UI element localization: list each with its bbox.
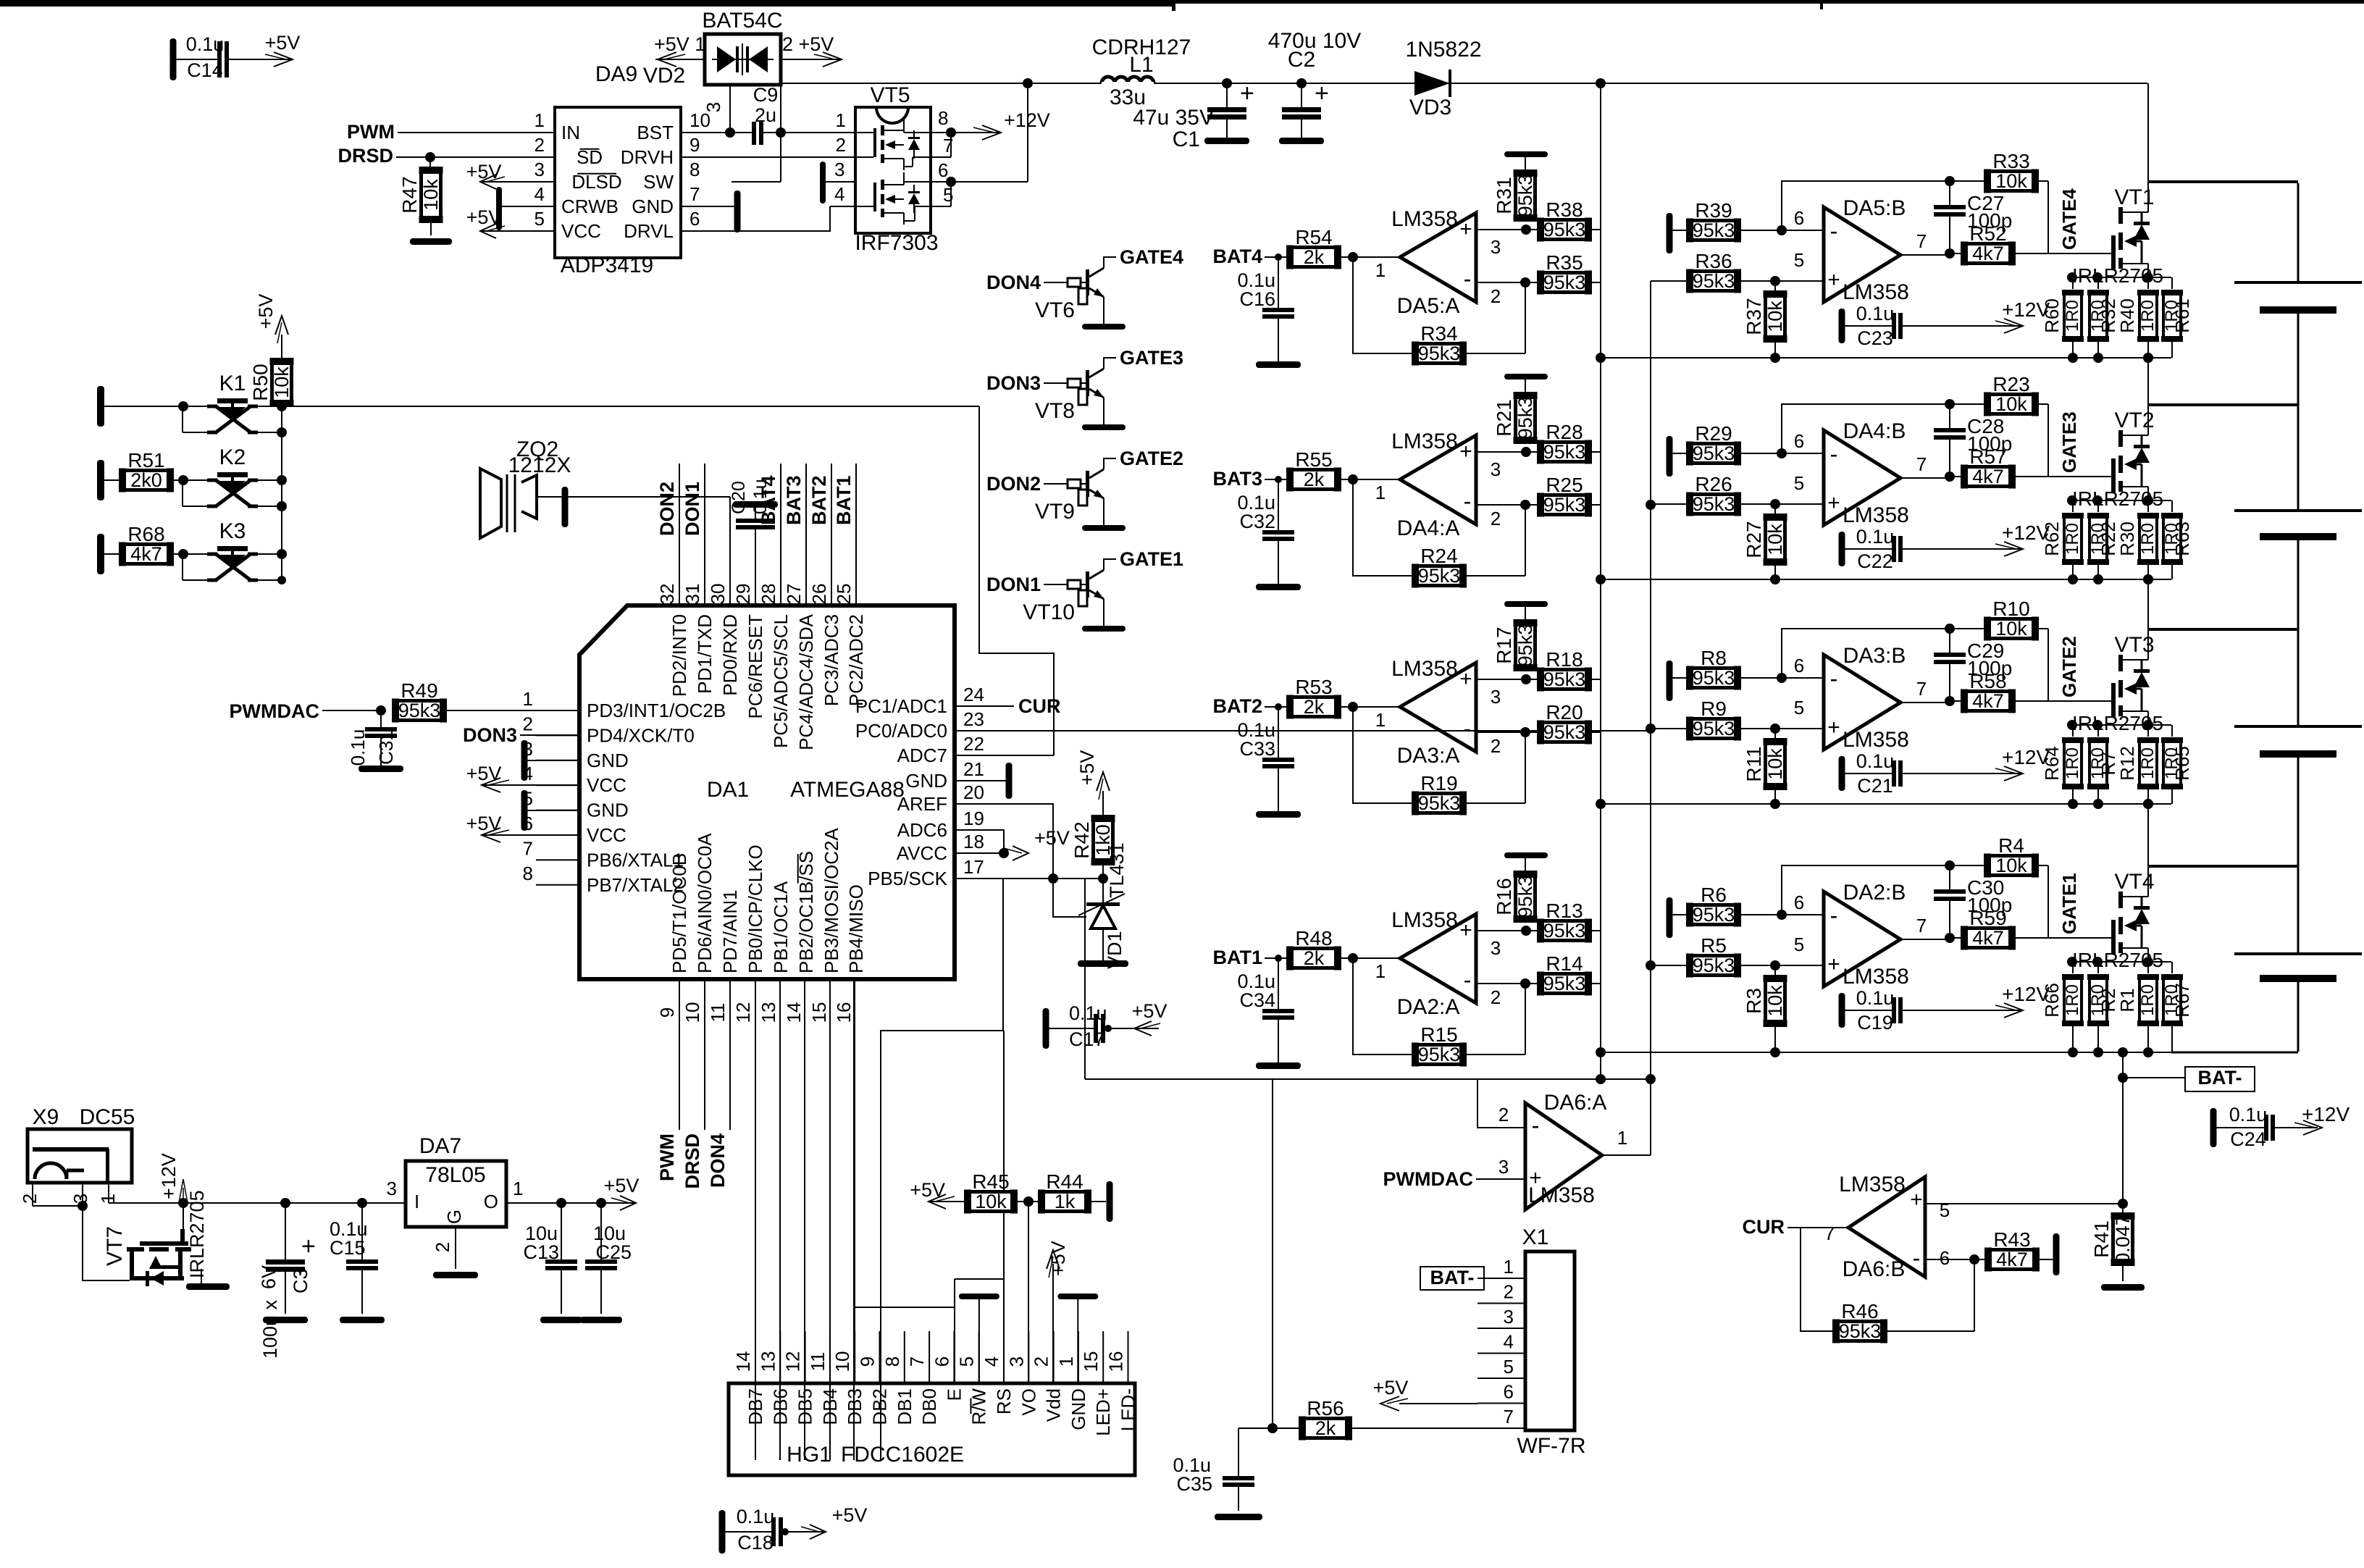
svg-text:2k: 2k bbox=[1315, 1417, 1336, 1439]
svg-text:1: 1 bbox=[523, 688, 533, 710]
svg-text:0.1u: 0.1u bbox=[1856, 526, 1895, 548]
svg-text:R66: R66 bbox=[2041, 983, 2063, 1018]
svg-text:R18: R18 bbox=[1546, 648, 1583, 671]
svg-text:78L05: 78L05 bbox=[425, 1163, 485, 1187]
svg-text:3: 3 bbox=[387, 1178, 397, 1199]
svg-text:GND: GND bbox=[587, 750, 629, 771]
svg-text:BAT54C: BAT54C bbox=[702, 9, 782, 33]
svg-text:2: 2 bbox=[1491, 508, 1501, 529]
svg-text:DON3: DON3 bbox=[986, 372, 1041, 394]
svg-text:DA6:A: DA6:A bbox=[1544, 1091, 1607, 1115]
svg-text:7: 7 bbox=[1916, 453, 1927, 475]
svg-text:C16: C16 bbox=[1239, 288, 1275, 310]
svg-text:8: 8 bbox=[938, 107, 948, 129]
svg-text:Vdd: Vdd bbox=[1043, 1388, 1065, 1422]
svg-text:+: + bbox=[301, 1233, 316, 1260]
svg-text:R25: R25 bbox=[1546, 474, 1583, 496]
svg-text:G: G bbox=[443, 1209, 465, 1224]
svg-text:29: 29 bbox=[732, 584, 754, 605]
svg-text:3: 3 bbox=[1005, 1357, 1027, 1367]
svg-text:IN: IN bbox=[561, 122, 580, 143]
svg-text:1212X: 1212X bbox=[508, 453, 571, 477]
svg-text:30: 30 bbox=[707, 584, 729, 605]
svg-text:DB3: DB3 bbox=[844, 1388, 865, 1425]
svg-text:14: 14 bbox=[732, 1351, 754, 1372]
svg-text:28: 28 bbox=[758, 584, 779, 605]
svg-text:-: - bbox=[1464, 488, 1472, 514]
svg-text:-: - bbox=[1830, 218, 1838, 244]
svg-text:L1: L1 bbox=[1129, 53, 1153, 77]
svg-text:R49: R49 bbox=[401, 679, 437, 702]
svg-text:DRVL: DRVL bbox=[624, 220, 674, 242]
svg-text:R37: R37 bbox=[1743, 298, 1765, 335]
svg-text:3: 3 bbox=[703, 102, 724, 112]
svg-text:1R0: 1R0 bbox=[2138, 984, 2158, 1016]
svg-text:R17: R17 bbox=[1493, 626, 1515, 663]
svg-text:CUR: CUR bbox=[1743, 1216, 1785, 1238]
svg-text:R44: R44 bbox=[1046, 1170, 1083, 1193]
svg-text:1: 1 bbox=[513, 1178, 523, 1199]
svg-text:7: 7 bbox=[1916, 915, 1927, 936]
svg-text:GATE3: GATE3 bbox=[2058, 411, 2080, 473]
svg-text:R27: R27 bbox=[1743, 521, 1765, 558]
svg-text:1: 1 bbox=[1375, 482, 1386, 503]
svg-text:VO: VO bbox=[1018, 1388, 1039, 1416]
svg-text:1: 1 bbox=[1375, 960, 1386, 982]
svg-text:LM358: LM358 bbox=[1843, 503, 1909, 527]
svg-text:VD1: VD1 bbox=[1104, 931, 1126, 969]
svg-text:K3: K3 bbox=[219, 519, 246, 543]
svg-text:2: 2 bbox=[1491, 986, 1501, 1008]
svg-text:BAT3: BAT3 bbox=[1212, 468, 1262, 490]
svg-text:DB4: DB4 bbox=[819, 1388, 841, 1425]
svg-text:+: + bbox=[1910, 1188, 1923, 1212]
svg-text:C18: C18 bbox=[737, 1532, 774, 1554]
svg-text:-: - bbox=[1913, 1245, 1921, 1271]
svg-text:ADC7: ADC7 bbox=[897, 745, 947, 766]
svg-text:20: 20 bbox=[963, 781, 984, 803]
svg-text:2k: 2k bbox=[1304, 947, 1325, 969]
svg-text:R52: R52 bbox=[1969, 222, 2006, 245]
svg-text:AVCC: AVCC bbox=[897, 842, 947, 864]
svg-text:2: 2 bbox=[1491, 285, 1501, 307]
svg-text:+12V: +12V bbox=[2302, 1103, 2350, 1125]
svg-text:8: 8 bbox=[523, 863, 533, 884]
svg-text:DON1: DON1 bbox=[986, 574, 1041, 595]
svg-text:+: + bbox=[1827, 716, 1840, 739]
svg-text:LM358: LM358 bbox=[1843, 965, 1909, 989]
svg-text:+: + bbox=[1459, 918, 1472, 942]
svg-text:3: 3 bbox=[1499, 1156, 1509, 1178]
svg-text:6: 6 bbox=[1794, 892, 1804, 913]
svg-text:DA7: DA7 bbox=[419, 1134, 461, 1158]
svg-text:R55: R55 bbox=[1295, 448, 1332, 471]
svg-text:95k3: 95k3 bbox=[1543, 668, 1586, 690]
svg-text:R57: R57 bbox=[1969, 445, 2006, 468]
svg-text:1R0: 1R0 bbox=[2063, 300, 2082, 332]
svg-text:18: 18 bbox=[963, 831, 984, 852]
svg-text:24: 24 bbox=[963, 684, 984, 705]
svg-text:I: I bbox=[414, 1191, 419, 1212]
svg-text:R31: R31 bbox=[1493, 177, 1515, 214]
svg-text:LM358: LM358 bbox=[1391, 429, 1458, 453]
svg-text:5: 5 bbox=[1794, 697, 1804, 718]
svg-text:0.1u: 0.1u bbox=[1856, 750, 1895, 772]
svg-text:3: 3 bbox=[834, 159, 844, 180]
svg-text:GATE2: GATE2 bbox=[2058, 636, 2080, 697]
svg-text:PD5/T1/OC0B: PD5/T1/OC0B bbox=[668, 853, 690, 973]
svg-text:10k: 10k bbox=[1995, 170, 2027, 192]
svg-text:BAT4: BAT4 bbox=[1212, 246, 1262, 267]
svg-text:PD7/AIN1: PD7/AIN1 bbox=[719, 889, 741, 973]
svg-text:95k3: 95k3 bbox=[1839, 1320, 1882, 1342]
svg-text:LM358: LM358 bbox=[1843, 728, 1909, 752]
svg-text:0.1u: 0.1u bbox=[2229, 1104, 2268, 1125]
svg-text:R10: R10 bbox=[1992, 598, 2029, 620]
svg-text:+5V: +5V bbox=[604, 1175, 640, 1196]
svg-text:PB1/OC1A: PB1/OC1A bbox=[770, 881, 792, 973]
svg-text:GND: GND bbox=[587, 800, 629, 821]
svg-text:PC4/ADC4/SDA: PC4/ADC4/SDA bbox=[795, 613, 817, 750]
svg-text:C1: C1 bbox=[1173, 127, 1200, 151]
svg-text:DA3:A: DA3:A bbox=[1397, 744, 1460, 768]
svg-text:GND: GND bbox=[632, 196, 674, 217]
svg-text:GND: GND bbox=[1068, 1388, 1089, 1430]
svg-text:47u 35V: 47u 35V bbox=[1133, 106, 1214, 130]
svg-text:PD2/INT0: PD2/INT0 bbox=[668, 614, 690, 697]
svg-text:DA1: DA1 bbox=[707, 778, 749, 802]
svg-text:95k3: 95k3 bbox=[1543, 920, 1586, 942]
svg-text:25: 25 bbox=[833, 584, 855, 605]
svg-text:1: 1 bbox=[1504, 1256, 1514, 1278]
svg-text:+12V: +12V bbox=[1004, 109, 1050, 131]
svg-text:4k7: 4k7 bbox=[1972, 466, 2004, 487]
svg-text:TL431: TL431 bbox=[1106, 842, 1128, 898]
svg-text:GATE3: GATE3 bbox=[1120, 347, 1183, 369]
svg-text:3: 3 bbox=[1504, 1306, 1514, 1328]
svg-text:R35: R35 bbox=[1546, 251, 1583, 274]
svg-text:PC6/RESET: PC6/RESET bbox=[745, 614, 766, 719]
svg-text:26: 26 bbox=[808, 584, 830, 605]
svg-text:O: O bbox=[484, 1191, 498, 1212]
svg-text:R1: R1 bbox=[2116, 988, 2138, 1012]
svg-text:4k7: 4k7 bbox=[1972, 690, 2004, 712]
svg-text:VD3: VD3 bbox=[1409, 96, 1451, 120]
svg-text:PD3/INT1/OC2B: PD3/INT1/OC2B bbox=[587, 700, 726, 721]
svg-text:10k: 10k bbox=[1764, 301, 1786, 332]
svg-text:R40: R40 bbox=[2116, 298, 2138, 333]
svg-text:+5V: +5V bbox=[466, 763, 502, 784]
svg-text:6: 6 bbox=[1504, 1381, 1514, 1403]
svg-text:+: + bbox=[1459, 667, 1472, 691]
svg-text:1R0: 1R0 bbox=[2138, 523, 2158, 555]
svg-text:95k3: 95k3 bbox=[1543, 973, 1586, 994]
svg-text:23: 23 bbox=[963, 708, 984, 730]
svg-text:LM358: LM358 bbox=[1391, 908, 1458, 932]
svg-text:C21: C21 bbox=[1857, 775, 1893, 797]
svg-text:1R0: 1R0 bbox=[2138, 300, 2158, 332]
svg-text:C25: C25 bbox=[595, 1241, 632, 1263]
svg-text:R8: R8 bbox=[1701, 647, 1727, 669]
svg-text:+: + bbox=[1315, 80, 1329, 107]
svg-text:PWMDAC: PWMDAC bbox=[230, 700, 319, 722]
svg-text:VCC: VCC bbox=[561, 220, 601, 242]
svg-text:R34: R34 bbox=[1420, 322, 1457, 345]
svg-text:13: 13 bbox=[757, 1351, 779, 1372]
svg-text:VCC: VCC bbox=[587, 824, 626, 846]
svg-text:PWMDAC: PWMDAC bbox=[1383, 1168, 1473, 1190]
svg-text:LM358: LM358 bbox=[1528, 1183, 1595, 1207]
svg-text:2 +5V: 2 +5V bbox=[782, 33, 834, 55]
svg-text:C32: C32 bbox=[1239, 511, 1275, 532]
svg-text:LED-: LED- bbox=[1118, 1388, 1139, 1431]
svg-text:DB7: DB7 bbox=[745, 1388, 766, 1425]
svg-text:DA4:A: DA4:A bbox=[1397, 516, 1460, 540]
svg-text:0.1u: 0.1u bbox=[347, 729, 369, 766]
svg-text:6: 6 bbox=[931, 1357, 952, 1367]
svg-text:DRSD: DRSD bbox=[682, 1133, 703, 1189]
svg-text:2: 2 bbox=[1491, 735, 1501, 757]
svg-text:R38: R38 bbox=[1546, 198, 1583, 221]
svg-text:BAT3: BAT3 bbox=[783, 475, 805, 525]
svg-text:R64: R64 bbox=[2041, 746, 2063, 781]
svg-text:DB2: DB2 bbox=[869, 1388, 891, 1425]
svg-text:+5V: +5V bbox=[255, 294, 277, 330]
svg-text:R3: R3 bbox=[1743, 988, 1765, 1014]
svg-text:10k: 10k bbox=[420, 179, 442, 211]
svg-text:BAT1: BAT1 bbox=[1212, 947, 1262, 968]
svg-text:10: 10 bbox=[831, 1351, 853, 1372]
svg-text:95k3: 95k3 bbox=[1543, 721, 1586, 743]
svg-text:2k: 2k bbox=[1304, 696, 1325, 718]
svg-text:R61: R61 bbox=[2171, 298, 2193, 333]
svg-text:95k3: 95k3 bbox=[398, 700, 441, 721]
svg-text:+: + bbox=[1827, 268, 1840, 292]
svg-text:DA9: DA9 bbox=[595, 62, 637, 86]
svg-text:R13: R13 bbox=[1546, 900, 1583, 922]
svg-text:0.1u: 0.1u bbox=[737, 1506, 775, 1527]
svg-text:GATE4: GATE4 bbox=[2058, 188, 2080, 250]
svg-text:R30: R30 bbox=[2116, 521, 2138, 556]
svg-text:3: 3 bbox=[535, 159, 545, 180]
svg-text:C33: C33 bbox=[1239, 738, 1275, 760]
svg-text:C23: C23 bbox=[1857, 327, 1893, 349]
svg-text:27: 27 bbox=[783, 584, 805, 605]
svg-text:9: 9 bbox=[656, 1007, 678, 1018]
svg-text:2: 2 bbox=[1504, 1281, 1514, 1303]
svg-text:5: 5 bbox=[1794, 472, 1804, 494]
svg-text:-: - bbox=[1830, 902, 1838, 928]
svg-text:5: 5 bbox=[1504, 1356, 1514, 1378]
svg-text:95k3: 95k3 bbox=[1514, 876, 1536, 918]
svg-text:DRSD: DRSD bbox=[338, 145, 393, 167]
svg-text:DA6:B: DA6:B bbox=[1843, 1257, 1906, 1281]
svg-text:14: 14 bbox=[783, 1002, 805, 1023]
svg-text:HG1: HG1 bbox=[787, 1443, 831, 1467]
svg-text:C9: C9 bbox=[753, 84, 779, 106]
svg-text:R28: R28 bbox=[1546, 421, 1583, 443]
svg-text:R15: R15 bbox=[1420, 1023, 1457, 1046]
svg-text:+5V: +5V bbox=[1373, 1377, 1409, 1399]
svg-text:BAT-: BAT- bbox=[2198, 1067, 2242, 1089]
svg-text:VT10: VT10 bbox=[1023, 600, 1075, 624]
svg-text:0.1u: 0.1u bbox=[1856, 303, 1895, 324]
svg-text:2: 2 bbox=[432, 1242, 453, 1252]
svg-text:LM358: LM358 bbox=[1843, 280, 1909, 304]
svg-text:95k3: 95k3 bbox=[1543, 219, 1586, 240]
svg-text:R59: R59 bbox=[1969, 907, 2006, 929]
svg-text:95k3: 95k3 bbox=[1693, 718, 1735, 739]
svg-text:DA2:A: DA2:A bbox=[1397, 995, 1460, 1019]
svg-text:IRF7303: IRF7303 bbox=[855, 231, 938, 255]
svg-text:E: E bbox=[943, 1388, 965, 1401]
svg-text:11: 11 bbox=[707, 1003, 729, 1023]
svg-text:LED+: LED+ bbox=[1092, 1388, 1114, 1436]
svg-text:+5V: +5V bbox=[1076, 750, 1098, 786]
svg-text:R58: R58 bbox=[1969, 670, 2006, 692]
svg-text:PB3/MOSI/OC2A: PB3/MOSI/OC2A bbox=[821, 828, 842, 973]
svg-text:DON3: DON3 bbox=[463, 724, 517, 746]
svg-text:6: 6 bbox=[689, 208, 700, 230]
svg-text:DA3:B: DA3:B bbox=[1843, 644, 1906, 668]
svg-text:C15: C15 bbox=[330, 1237, 366, 1259]
svg-text:1: 1 bbox=[1055, 1357, 1077, 1367]
svg-text:95k3: 95k3 bbox=[1514, 397, 1536, 440]
svg-text:-: - bbox=[1532, 1112, 1540, 1139]
svg-text:1R0: 1R0 bbox=[2138, 747, 2158, 779]
svg-text:R11: R11 bbox=[1743, 746, 1765, 781]
svg-text:R43: R43 bbox=[1993, 1228, 2030, 1251]
svg-text:DON1: DON1 bbox=[682, 482, 703, 536]
svg-text:+: + bbox=[1459, 217, 1472, 241]
svg-text:R4: R4 bbox=[1998, 834, 2024, 857]
svg-text:PD6/AIN0/OC0A: PD6/AIN0/OC0A bbox=[694, 833, 716, 973]
svg-text:+5V: +5V bbox=[265, 32, 301, 54]
svg-text:R36: R36 bbox=[1695, 250, 1732, 272]
svg-text:ADC6: ADC6 bbox=[897, 819, 947, 841]
svg-text:R16: R16 bbox=[1493, 878, 1515, 915]
svg-text:2k: 2k bbox=[1304, 469, 1325, 490]
svg-text:R5: R5 bbox=[1701, 934, 1727, 957]
svg-text:95k3: 95k3 bbox=[1693, 270, 1735, 292]
svg-text:PC3/ADC3: PC3/ADC3 bbox=[821, 614, 842, 706]
svg-text:DB6: DB6 bbox=[769, 1388, 791, 1425]
svg-text:2: 2 bbox=[19, 1194, 41, 1204]
svg-text:6: 6 bbox=[1794, 655, 1804, 676]
svg-text:PC2/ADC2: PC2/ADC2 bbox=[845, 614, 867, 706]
svg-text:R21: R21 bbox=[1493, 399, 1515, 436]
svg-text:16: 16 bbox=[833, 1002, 855, 1023]
svg-text:21: 21 bbox=[963, 758, 984, 780]
svg-text:R56: R56 bbox=[1307, 1397, 1344, 1420]
svg-text:10: 10 bbox=[682, 1002, 703, 1023]
svg-text:1: 1 bbox=[836, 109, 846, 131]
svg-text:R26: R26 bbox=[1695, 473, 1732, 495]
svg-text:95k3: 95k3 bbox=[1693, 219, 1735, 241]
svg-text:VT9: VT9 bbox=[1035, 500, 1075, 524]
svg-text:DA2:B: DA2:B bbox=[1843, 881, 1906, 905]
svg-text:5: 5 bbox=[1940, 1199, 1950, 1221]
svg-text:32: 32 bbox=[656, 584, 678, 605]
svg-text:-: - bbox=[1830, 441, 1838, 467]
svg-text:R68: R68 bbox=[127, 523, 164, 545]
svg-text:+5V 1: +5V 1 bbox=[654, 33, 705, 55]
svg-text:95k3: 95k3 bbox=[1514, 175, 1536, 217]
svg-text:7: 7 bbox=[906, 1357, 928, 1367]
svg-text:7: 7 bbox=[1824, 1223, 1835, 1244]
svg-text:12: 12 bbox=[782, 1351, 804, 1372]
svg-text:+5V: +5V bbox=[466, 206, 502, 228]
svg-text:BAT2: BAT2 bbox=[808, 475, 830, 525]
svg-text:C24: C24 bbox=[2230, 1128, 2266, 1150]
svg-text:C20: C20 bbox=[729, 481, 749, 514]
svg-text:LM358: LM358 bbox=[1839, 1173, 1906, 1196]
svg-text:1R0: 1R0 bbox=[2063, 984, 2082, 1016]
svg-text:15: 15 bbox=[1080, 1351, 1102, 1372]
svg-text:R51: R51 bbox=[127, 449, 164, 471]
svg-text:R6: R6 bbox=[1701, 884, 1727, 906]
svg-text:8: 8 bbox=[689, 159, 700, 180]
svg-text:R60: R60 bbox=[2041, 298, 2063, 333]
svg-text:+: + bbox=[1827, 491, 1840, 515]
svg-text:C19: C19 bbox=[1857, 1012, 1893, 1034]
svg-text:R14: R14 bbox=[1546, 952, 1583, 975]
svg-text:R47: R47 bbox=[398, 176, 421, 213]
svg-text:8: 8 bbox=[881, 1357, 903, 1367]
svg-text:22: 22 bbox=[963, 733, 984, 755]
svg-text:4k7: 4k7 bbox=[1972, 927, 2004, 949]
svg-text:95k3: 95k3 bbox=[1543, 441, 1586, 463]
svg-text:DA4:B: DA4:B bbox=[1843, 419, 1906, 443]
svg-text:VT8: VT8 bbox=[1035, 399, 1075, 423]
svg-text:R39: R39 bbox=[1695, 199, 1732, 222]
svg-text:9: 9 bbox=[689, 134, 700, 156]
svg-text:DON4: DON4 bbox=[707, 1133, 729, 1188]
svg-text:95k3: 95k3 bbox=[1543, 494, 1586, 516]
svg-text:R42: R42 bbox=[1070, 821, 1093, 858]
svg-text:1R0: 1R0 bbox=[2063, 523, 2082, 555]
svg-text:0.1u: 0.1u bbox=[186, 33, 225, 55]
svg-text:1: 1 bbox=[1375, 709, 1386, 731]
svg-text:9: 9 bbox=[857, 1357, 879, 1367]
svg-text:+: + bbox=[1459, 440, 1472, 464]
svg-text:7: 7 bbox=[523, 837, 533, 859]
svg-text:R46: R46 bbox=[1841, 1300, 1878, 1322]
svg-text:2u: 2u bbox=[755, 104, 776, 126]
svg-text:GND: GND bbox=[905, 770, 947, 792]
svg-text:4: 4 bbox=[834, 183, 844, 205]
svg-text:3: 3 bbox=[1491, 686, 1501, 708]
svg-text:PWM: PWM bbox=[347, 121, 395, 143]
svg-text:4: 4 bbox=[981, 1357, 1002, 1367]
svg-text:R67: R67 bbox=[2171, 983, 2193, 1018]
svg-text:VT5: VT5 bbox=[870, 83, 910, 107]
svg-text:95k3: 95k3 bbox=[1693, 904, 1735, 926]
svg-text:2k: 2k bbox=[1304, 246, 1325, 268]
svg-text:GATE1: GATE1 bbox=[2058, 873, 2080, 934]
svg-text:95k3: 95k3 bbox=[1693, 955, 1735, 976]
svg-text:5: 5 bbox=[1794, 249, 1804, 271]
svg-text:VCC: VCC bbox=[587, 774, 626, 796]
svg-text:5: 5 bbox=[535, 208, 545, 230]
svg-text:5: 5 bbox=[943, 184, 953, 206]
svg-text:FDCC1602E: FDCC1602E bbox=[841, 1443, 964, 1467]
svg-text:2k0: 2k0 bbox=[130, 469, 162, 491]
svg-text:4: 4 bbox=[535, 183, 545, 205]
svg-text:6: 6 bbox=[1794, 430, 1804, 452]
svg-text:R33: R33 bbox=[1992, 150, 2029, 172]
svg-text:R45: R45 bbox=[972, 1170, 1009, 1193]
